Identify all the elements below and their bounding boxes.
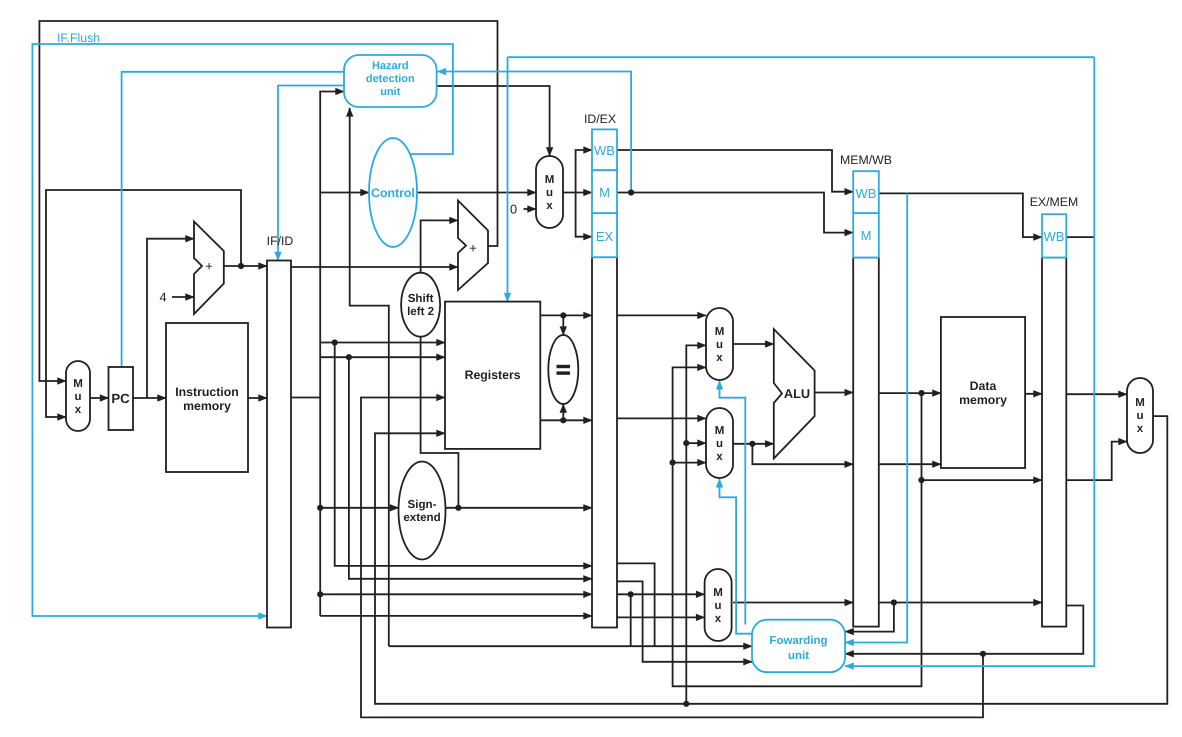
block Data memory [941, 317, 1025, 468]
wire ALU result to Data memory address [879, 392, 941, 394]
svg-text:Hazard: Hazard [372, 60, 409, 72]
svg-text:+: + [469, 241, 477, 256]
wire ID/EX M control to MEM/WB [617, 193, 853, 233]
wire ForwardB select to Mux4 [720, 479, 753, 634]
junction dot at 320.2,594.3 [317, 591, 323, 597]
wire ID/EX read data 1 to Mux3 [617, 314, 706, 316]
junction dot at 241,266 [238, 263, 244, 269]
wire Data memory read data out [1025, 393, 1042, 395]
wire ID/EX rs out down [617, 563, 655, 646]
wire Mux2 out to ID/EX WB [576, 150, 592, 193]
svg-text:u: u [74, 391, 81, 403]
wire rs field into ID/EX [335, 343, 592, 566]
wire Mux3 out to ALU [733, 343, 774, 345]
wire rd field into ID/EX [349, 357, 592, 579]
wire memory data to Mux6 [1066, 393, 1127, 395]
wire branch-target loop (adder2 out to top rail to PC mux) [39, 21, 497, 381]
svg-text:x: x [1137, 423, 1144, 435]
wire adder1 out to IF/ID [224, 265, 267, 267]
svg-text:EX: EX [596, 229, 614, 244]
junction dot at 672.6,462.6 [670, 460, 676, 466]
wire ID/EX WB control to MEM/WB [617, 150, 853, 192]
wire constant 4 into adder1 [172, 296, 194, 298]
wire EX/MEM RegWrite down to Forwarding unit [845, 57, 1094, 666]
svg-text:M: M [73, 378, 83, 390]
svg-text:u: u [716, 438, 723, 450]
unit Control [369, 138, 417, 247]
wire rt tap down to forwarding row [630, 594, 632, 646]
junction dot at 563.3,420.3 [560, 417, 566, 423]
svg-text:u: u [1136, 410, 1143, 422]
wire MEM-stage forward down and to Mux3 [673, 367, 922, 686]
wire ID/EX rt out to Mux5 [617, 593, 705, 595]
svg-text:WB: WB [1044, 229, 1065, 244]
block Shift left 2 [401, 273, 440, 337]
junction dot at 320.2,507.8 [317, 505, 323, 511]
wire sign-extend tap up to shift-left-2 [421, 337, 459, 508]
wire B value down to EX/MEM (via store data) [752, 444, 853, 464]
junction dot at 631.1,192.5 [628, 189, 634, 195]
svg-text:detection: detection [366, 73, 415, 85]
wire store data to Data memory [879, 463, 941, 465]
junction dot at 458.4,507.8 [455, 505, 461, 511]
wire IF/ID-Write from Hazard unit to IF/ID [278, 86, 344, 261]
wire read register 1 into Registers [320, 342, 445, 344]
wire Mux5 out destination reg to MEM/WB [733, 602, 853, 604]
wire Mux2 out to ID/EX EX [576, 193, 592, 237]
block Instruction memory [166, 323, 248, 472]
svg-text:x: x [716, 451, 723, 463]
wire IF/ID instruction out to bus [291, 397, 320, 399]
register PC [109, 367, 134, 430]
comparator = [548, 335, 578, 404]
svg-text:MEM/WB: MEM/WB [840, 153, 892, 167]
register EX/MEM [1042, 258, 1066, 627]
wire MEM/WB RegWrite to Forwarding unit [845, 193, 907, 642]
unit Hazard detection unit [344, 55, 437, 107]
wire WB forward to Mux4 [686, 442, 706, 444]
register MEM/WB [853, 258, 879, 627]
wire ID/EX rd to Mux5 [617, 616, 705, 618]
svg-text:Registers: Registers [465, 368, 521, 382]
wire MEM-stage forward to Mux4 [673, 462, 706, 464]
wire MEM destination reg to Forwarding unit [845, 603, 894, 632]
junction dot at 893.9,602.5 [891, 599, 897, 605]
wire rd field into ID/EX bottom [320, 615, 592, 617]
wire ForwardA select to Mux3 [720, 381, 746, 625]
mux Mux2 (control zero mux) [536, 156, 563, 228]
block Sign-extend [399, 462, 446, 560]
junction dot at 921.5,480.1 [918, 477, 924, 483]
wire IF/ID PC+4 out to adder2 [291, 266, 458, 268]
wire MEM/WB WB control to EX/MEM [879, 193, 1042, 237]
unit Fowarding unit [752, 620, 845, 673]
wire PC out to Instruction memory [133, 397, 166, 399]
mux Mux6 (write-back mux) [1127, 378, 1153, 453]
svg-text:x: x [75, 404, 82, 416]
svg-text:Shift: Shift [408, 292, 434, 305]
block Registers [445, 302, 540, 449]
alu ALU [774, 329, 815, 458]
wire tap into comparator bottom [562, 404, 564, 420]
svg-text:u: u [716, 339, 723, 351]
junction dot at 686.3,703.8 [683, 701, 689, 707]
svg-text:x: x [546, 200, 553, 212]
mux Mux5 (destination register) [705, 569, 732, 641]
junction dot at 752.4,443.8 [749, 441, 755, 447]
junction dot at 686.3,443.1 [683, 440, 689, 446]
svg-text:M: M [715, 326, 725, 338]
mux Mux3 (ALU operand A) [706, 308, 733, 380]
svg-text:memory: memory [959, 393, 1007, 407]
svg-text:M: M [545, 174, 555, 186]
svg-text:u: u [714, 600, 721, 612]
wire Control out to Mux2 [417, 192, 536, 194]
wire ID/EX rt up to Hazard detection unit [350, 108, 389, 646]
wire sign-extend out to ID/EX [446, 507, 592, 509]
wire Mux4 out to ALU [733, 443, 774, 445]
wire instruction to Control [320, 192, 369, 194]
wire IF.Flush from Control around to IF/ID [32, 44, 453, 616]
wire Hazard unit out to Mux2 select [437, 86, 550, 156]
wire RegWrite down into Registers [507, 57, 509, 301]
wire Mux2 out to ID/EX M [563, 192, 592, 194]
wire read register 2 into Registers [320, 356, 445, 358]
junction dot at 348.9,357.2 [346, 354, 352, 360]
wire rt field into ID/EX [320, 593, 592, 595]
wire EX/MEM ALU result to Mux6 [1066, 442, 1127, 481]
svg-text:M: M [713, 587, 723, 599]
svg-text:memory: memory [183, 399, 231, 413]
mux Mux4 (ALU operand B) [706, 408, 733, 478]
wire PC+4 loop to PC mux [46, 190, 241, 417]
svg-text:Sign-: Sign- [408, 498, 437, 511]
wire RegWrite rail on top [508, 56, 1095, 58]
svg-text:M: M [599, 185, 610, 200]
junction dot at 983,653.8 [980, 651, 986, 657]
wire Instruction memory out to IF/ID [248, 397, 267, 399]
wire ALU result pass to EX/MEM register [922, 393, 1043, 480]
register IF/ID [267, 261, 291, 628]
svg-text:x: x [715, 613, 722, 625]
wire ID/EX rd out to Forwarding unit [617, 581, 752, 661]
wire Mux1 out to PC [90, 397, 109, 399]
svg-text:ID/EX: ID/EX [584, 112, 616, 126]
svg-text:M: M [1135, 397, 1145, 409]
wire tap into comparator top [562, 315, 564, 335]
svg-text:IF.Flush: IF.Flush [57, 31, 100, 45]
svg-text:WB: WB [594, 143, 615, 158]
wire read data 2 to ID/EX [540, 419, 592, 421]
adder ADD2 (branch target) [458, 201, 488, 291]
svg-text:Fowarding: Fowarding [769, 635, 827, 647]
register ID/EX [592, 257, 617, 627]
svg-text:unit: unit [380, 86, 400, 98]
wire zero into Mux2 [524, 208, 537, 210]
svg-text:M: M [861, 228, 872, 243]
svg-text:Control: Control [371, 186, 415, 200]
wire EX/MEM destination reg to Forwarding unit [845, 606, 1083, 654]
junction dot at 630.7,594.3 [628, 591, 634, 597]
svg-text:+: + [205, 259, 213, 274]
svg-text:unit: unit [788, 650, 809, 662]
svg-text:Instruction: Instruction [175, 385, 239, 399]
wire Mux6 writeback loop to Registers write data [375, 416, 1167, 704]
wire shift-left-2 out to adder2 [421, 220, 458, 272]
wire ALU result to MEM/WB register [815, 392, 854, 394]
junction dot at 921.5,393.1 [918, 390, 924, 396]
svg-text:x: x [716, 352, 723, 364]
adder ADD1 (PC+4) [194, 222, 224, 315]
wire read data 1 to ID/EX [540, 314, 592, 316]
svg-text:left 2: left 2 [407, 305, 434, 318]
junction dot at 334.7,342.5 [332, 339, 338, 345]
wire destination reg pass to EX/MEM [879, 602, 1042, 604]
wire write register number loop to Registers [361, 398, 983, 718]
wire WB forward up to Mux3 [686, 345, 706, 703]
junction dot at 563.3,315.4 [560, 312, 566, 318]
wire EX/MEM WB control out [1066, 236, 1094, 238]
svg-text:WB: WB [856, 186, 877, 201]
svg-text:EX/MEM: EX/MEM [1030, 195, 1079, 209]
wire ID/EX read data 2 to Mux4 [617, 417, 706, 419]
svg-text:Data: Data [970, 379, 997, 393]
mux Mux1 (PC source mux) [66, 361, 90, 431]
svg-text:u: u [546, 187, 553, 199]
svg-text:M: M [715, 425, 725, 437]
wire instruction to sign-extend [320, 507, 398, 509]
svg-text:extend: extend [403, 511, 440, 524]
wire ID/EX.MemRead to Hazard unit [438, 72, 632, 193]
svg-text:PC: PC [111, 391, 130, 406]
svg-text:4: 4 [159, 290, 166, 305]
svg-text:ALU: ALU [784, 386, 810, 401]
wire rs into Forwarding unit [389, 645, 752, 647]
svg-text:0: 0 [510, 202, 517, 217]
wire PC value up to adder1 [147, 239, 194, 398]
wire instruction bus vertical to hazard unit [320, 92, 344, 616]
svg-text:IF/ID: IF/ID [267, 234, 294, 248]
wire PCWrite from Hazard unit to PC [122, 72, 344, 367]
